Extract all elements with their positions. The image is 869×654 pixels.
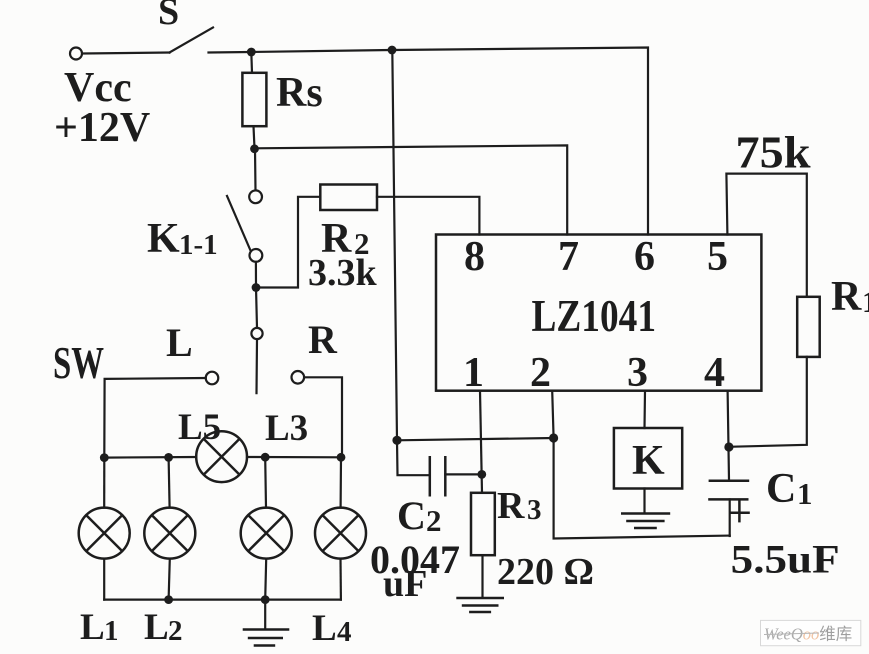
wire R1 bottom to pin4 node xyxy=(729,357,807,447)
ground below R3 xyxy=(456,598,504,612)
wire L2 to bottom bus xyxy=(169,559,170,600)
node bus junction at L3 xyxy=(261,453,270,462)
wire L4 to bottom bus xyxy=(339,559,342,600)
resistor R3 xyxy=(471,493,495,555)
node bottom bus junction at L2 xyxy=(164,595,173,604)
wire R2 to IC pin 8 xyxy=(377,197,479,235)
resistor Rs xyxy=(242,73,266,126)
wire top supply bus xyxy=(209,48,649,235)
label L2 xyxy=(144,607,183,648)
switch S blade xyxy=(170,28,214,53)
wire R3 to ground xyxy=(481,555,483,597)
node junction pin2 xyxy=(549,433,558,442)
svg-text:R: R xyxy=(497,485,525,527)
wire L1 drop xyxy=(103,458,105,508)
wire C2 node to C2 left plate xyxy=(397,440,429,475)
lamp L1 xyxy=(79,508,130,559)
relay K xyxy=(614,428,682,489)
svg-text:L: L xyxy=(312,608,337,649)
label R2 3.3k xyxy=(308,216,378,294)
node junction top bus at Rs xyxy=(247,48,256,57)
lamp L4 xyxy=(315,508,366,559)
svg-text:LZ1041: LZ1041 xyxy=(532,290,657,341)
node R contact xyxy=(292,371,305,384)
node junction C2 pin1 R3 xyxy=(477,470,486,479)
wire K to ground xyxy=(643,489,645,514)
svg-text:1: 1 xyxy=(797,476,813,511)
wire Vcc to switch S xyxy=(83,53,170,54)
node junction below K1-1 xyxy=(252,283,261,292)
wire lamp bus right xyxy=(247,456,341,458)
node L contact xyxy=(206,372,219,385)
svg-text:R: R xyxy=(308,317,338,362)
wire L4 drop xyxy=(340,457,343,507)
svg-text:5.5uF: 5.5uF xyxy=(731,537,840,582)
lamp L5 xyxy=(196,431,247,482)
svg-text:L3: L3 xyxy=(265,408,308,449)
wire IC pin 2 down xyxy=(552,391,553,438)
svg-text:uF: uF xyxy=(383,563,427,605)
svg-text:L: L xyxy=(166,320,193,365)
svg-text:3.3k: 3.3k xyxy=(308,252,378,294)
label Vcc +12V xyxy=(54,65,150,151)
svg-text:+12V: +12V xyxy=(54,105,150,151)
wire C2 right plate to R3 node xyxy=(445,473,482,475)
wire L1 to bottom bus xyxy=(103,559,105,600)
ground below K xyxy=(621,514,670,529)
svg-text:2: 2 xyxy=(530,350,551,396)
wire IC pin 3 down to relay K xyxy=(643,391,646,428)
svg-text:5: 5 xyxy=(707,234,728,280)
label R3 xyxy=(497,485,542,527)
wire L3 drop xyxy=(264,457,267,507)
capacitor C2 xyxy=(430,456,446,497)
svg-text:2: 2 xyxy=(426,503,442,538)
node Vcc input terminal xyxy=(70,48,82,60)
svg-text:1: 1 xyxy=(862,284,869,319)
wire IC pin 4 down xyxy=(728,391,729,480)
lamp L3 xyxy=(241,508,292,559)
label C2 value xyxy=(370,493,460,605)
svg-text:Rs: Rs xyxy=(276,70,323,116)
node bottom bus junction at ground xyxy=(261,595,270,604)
node junction below Rs xyxy=(250,144,259,153)
svg-text:1: 1 xyxy=(104,615,119,647)
svg-text:1-1: 1-1 xyxy=(179,229,218,261)
label C1 xyxy=(766,466,813,512)
node bus junction at L2 xyxy=(164,453,173,462)
label R1 xyxy=(831,274,869,320)
svg-text:C: C xyxy=(397,493,426,538)
wire junction to IC pin 7 xyxy=(255,145,568,234)
svg-text:4: 4 xyxy=(704,350,725,396)
node bus junction at L4 xyxy=(337,453,346,462)
wire SW to L contact xyxy=(104,378,205,458)
wire IC pin 1 down to R3 xyxy=(480,391,482,493)
wire IC pin 5 to 75k top xyxy=(726,174,806,297)
node junction pin4 R1 C1 xyxy=(724,442,733,451)
ground below lamps xyxy=(243,630,290,646)
resistor R2 xyxy=(320,185,377,211)
wire bus to lamp ground xyxy=(264,600,266,629)
wire pin2 node down and right to C1 bottom xyxy=(554,438,730,539)
svg-text:3: 3 xyxy=(627,350,648,396)
svg-text:L5: L5 xyxy=(178,407,221,448)
svg-text:3: 3 xyxy=(527,494,542,526)
wire junction down to K1-1 xyxy=(254,149,257,191)
wire lamp bus left xyxy=(104,456,196,459)
svg-text:R: R xyxy=(831,274,862,320)
wire junction to R2 left xyxy=(256,197,320,288)
watermark WeeQoo xyxy=(761,620,861,645)
svg-text:L: L xyxy=(80,607,105,648)
wire horizontal C2-node to pin2-node xyxy=(397,438,554,440)
wire Rs to junction xyxy=(254,126,255,148)
wire SW pole from K1-1 xyxy=(256,288,257,394)
lamp L2 xyxy=(144,508,195,559)
wire R contact down to lamp bus xyxy=(304,377,342,457)
capacitor C1 xyxy=(708,481,750,536)
switch K1-1 xyxy=(227,190,262,261)
label L4 xyxy=(312,608,352,649)
svg-text:C: C xyxy=(766,466,796,512)
wire bus to Rs xyxy=(250,52,253,73)
label L1 xyxy=(80,607,119,648)
svg-text:4: 4 xyxy=(337,616,352,648)
svg-text:6: 6 xyxy=(634,234,655,280)
svg-text:SW: SW xyxy=(53,338,104,388)
node junction top bus at long vertical xyxy=(388,46,397,55)
svg-text:L: L xyxy=(144,607,169,648)
wire bottom bus xyxy=(104,598,341,600)
node bus junction at L1 xyxy=(100,453,109,462)
wire L2 drop xyxy=(169,457,170,507)
svg-text:S: S xyxy=(158,0,179,33)
svg-text:K: K xyxy=(632,438,665,484)
wire K1-1 to junction xyxy=(255,262,257,288)
svg-text:220 Ω: 220 Ω xyxy=(497,551,594,593)
resistor R1 xyxy=(797,297,820,357)
svg-text:1: 1 xyxy=(463,350,484,396)
svg-text:7: 7 xyxy=(558,234,579,280)
svg-text:75k: 75k xyxy=(736,128,811,178)
svg-text:8: 8 xyxy=(464,234,485,280)
svg-text:K: K xyxy=(147,216,180,262)
label K1-1 xyxy=(147,216,218,262)
node junction at C2 branch xyxy=(392,436,401,445)
IC U1 LZ1041 xyxy=(436,235,761,391)
svg-text:2: 2 xyxy=(168,615,183,647)
wire long vertical from top bus to C2 node xyxy=(392,50,397,440)
node SW pole contact xyxy=(251,328,262,339)
wire L3 to bottom bus xyxy=(265,559,266,600)
